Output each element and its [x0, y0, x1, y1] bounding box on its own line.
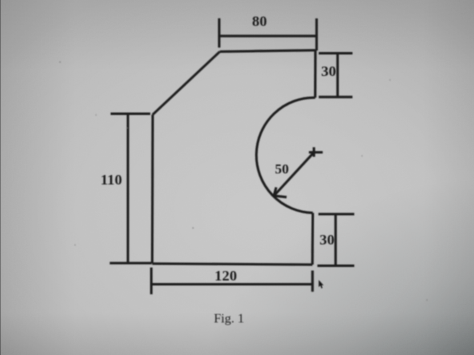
dimension 50 radius: leader line [275, 152, 314, 194]
dimension 110: upper tick [111, 113, 151, 116]
dust specks [59, 61, 428, 301]
dimension 50 radius: arrowhead barb right [274, 196, 287, 197]
part outline: top edge [220, 50, 316, 51]
dimension 30 bottom: upper tick [318, 213, 354, 216]
part outline: right edge lower [311, 213, 314, 265]
center mark cross: vertical stroke [313, 147, 316, 157]
dimension 110: lower tick [110, 262, 152, 265]
part outline: right edge upper [314, 50, 317, 97]
left photo edge shadow [0, 0, 1, 355]
dimension 80: left extension line [218, 18, 221, 47]
dimension 80: right extension line [315, 18, 318, 50]
dimension 50 radius: arrowhead barb up [274, 187, 276, 195]
dimension 30 top: upper tick [319, 52, 353, 55]
center mark cross: horizontal stroke [309, 151, 323, 154]
mouse cursor [319, 280, 324, 288]
dimension 120: dimension line [151, 283, 311, 286]
part outline: chamfer diagonal [153, 52, 220, 115]
dimension 120: right extension line [311, 271, 314, 292]
dimension 80: dimension line [219, 35, 316, 38]
dimension 30 bottom: lower tick [317, 264, 354, 267]
part outline: left edge [151, 115, 154, 264]
dimension 120: left extension line [150, 268, 153, 295]
dimension 30 top: lower tick [319, 96, 353, 99]
part outline: bottom edge [152, 264, 312, 265]
dimension 30 bottom: dimension line [334, 214, 337, 266]
dimension 110: dimension line [127, 114, 130, 263]
part outline: semicircular notch arc R50 [256, 98, 315, 213]
dimension 30 top: dimension line [336, 53, 339, 97]
